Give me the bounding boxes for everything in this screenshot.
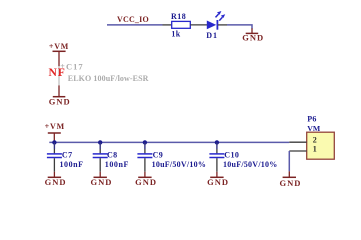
svg-text:+VM: +VM	[45, 122, 65, 131]
wire C9	[144, 142, 146, 149]
wire +VM bus	[49, 141, 289, 143]
svg-text:C8: C8	[107, 150, 118, 159]
pin C8 top	[99, 149, 101, 153]
resistor R18	[172, 21, 191, 28]
wire C8	[99, 142, 101, 149]
power +VM (C17)	[49, 42, 69, 66]
capacitor C9	[137, 154, 152, 158]
ground (P6)	[280, 171, 302, 188]
svg-text:C7: C7	[62, 150, 73, 159]
pin D1 cathode	[218, 24, 227, 26]
ground (C17)	[49, 85, 71, 106]
svg-text:GND: GND	[45, 177, 67, 187]
svg-text:10uF/50V/10%: 10uF/50V/10%	[152, 160, 207, 169]
svg-text:100nF: 100nF	[105, 160, 129, 169]
svg-text:ELKO 100uF/low-ESR: ELKO 100uF/low-ESR	[68, 74, 149, 83]
power +VM (bus)	[45, 122, 65, 143]
pin 1	[289, 150, 306, 152]
capacitor C17 (not fitted, greyed)	[58, 66, 60, 85]
wire net VCC_IO	[107, 24, 163, 26]
svg-text:GND: GND	[207, 177, 229, 187]
LED D1	[207, 11, 225, 30]
pin R18 left	[163, 24, 172, 26]
pin 2	[289, 141, 306, 143]
junction C7	[52, 140, 56, 144]
ground (C10)	[207, 172, 229, 187]
capacitor C7	[47, 154, 62, 158]
pin C9 bottom	[144, 158, 146, 172]
ground (C7)	[45, 172, 67, 187]
pin C8 bottom	[99, 158, 101, 172]
wire to GND	[227, 25, 252, 29]
svg-text:D1: D1	[206, 31, 218, 40]
svg-text:GND: GND	[242, 32, 264, 42]
junction C8	[98, 140, 102, 144]
svg-text:VCC_IO: VCC_IO	[117, 15, 149, 24]
svg-text:2: 2	[313, 136, 317, 145]
junction C9	[143, 140, 147, 144]
ground (C8)	[90, 172, 112, 187]
svg-text:C10: C10	[224, 150, 239, 159]
svg-text:GND: GND	[135, 177, 157, 187]
svg-text:10uF/50V/10%: 10uF/50V/10%	[223, 160, 278, 169]
svg-text:GND: GND	[49, 96, 71, 106]
wire C10	[216, 142, 218, 149]
junction C10	[215, 140, 219, 144]
wire C7	[53, 142, 55, 149]
pin R18 right / D1 anode	[190, 24, 207, 26]
capacitor C8	[93, 154, 108, 158]
svg-text:1k: 1k	[171, 30, 180, 39]
capacitor C10	[209, 154, 224, 158]
ground (top)	[242, 28, 264, 42]
pin C7 bottom	[53, 158, 55, 172]
svg-text:NF: NF	[49, 66, 66, 79]
svg-text:100nF: 100nF	[60, 160, 84, 169]
svg-text:R18: R18	[171, 12, 186, 21]
wire P6 pin1 to GND	[288, 151, 290, 171]
svg-text:1: 1	[313, 145, 317, 154]
pin C7 top	[53, 149, 55, 153]
pin C10 bottom	[216, 158, 218, 172]
svg-text:GND: GND	[280, 178, 302, 188]
svg-text:P6: P6	[307, 115, 317, 124]
svg-text:GND: GND	[90, 177, 112, 187]
pin C9 top	[144, 149, 146, 153]
svg-text:C17: C17	[66, 62, 84, 72]
connector P6	[307, 132, 335, 159]
svg-text:+VM: +VM	[49, 42, 69, 51]
svg-text:C9: C9	[153, 150, 164, 159]
ground (C9)	[135, 172, 157, 187]
pin C10 top	[216, 149, 218, 153]
